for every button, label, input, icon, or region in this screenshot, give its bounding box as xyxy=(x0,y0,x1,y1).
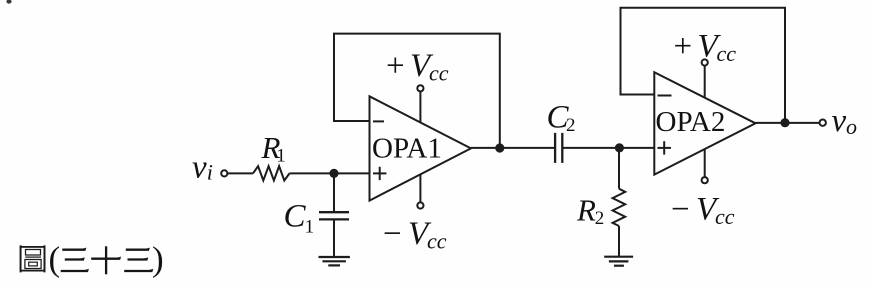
wire: OPA1 +Vcc stub xyxy=(419,92,421,123)
caption stroke serifs xyxy=(81,248,154,273)
op-amp U2 (OPA2) triangle xyxy=(654,72,755,174)
svg-text:+: + xyxy=(674,28,693,64)
ground (below R2) xyxy=(604,256,633,258)
node: vo output terminal xyxy=(820,120,826,126)
svg-text:v: v xyxy=(832,103,847,139)
svg-text:−: − xyxy=(383,216,402,252)
svg-text:OPA1: OPA1 xyxy=(372,132,442,164)
node: OPA2 -Vcc terminal xyxy=(702,177,708,183)
wire: node B down to R2 xyxy=(618,148,620,189)
wire: R2 to ground xyxy=(618,226,620,256)
resistor R1 xyxy=(253,166,290,180)
glyph 圖 inner top box xyxy=(26,250,41,256)
node A: junction of R1, C1, OPA1 + input xyxy=(330,170,337,177)
resistor R2 xyxy=(613,189,626,226)
op-amp U1 (OPA1) triangle xyxy=(370,96,471,200)
node: OPA1 -Vcc terminal xyxy=(417,202,423,208)
capacitor C1 xyxy=(319,211,349,213)
svg-text:cc: cc xyxy=(717,41,737,66)
wire: R1 to OPA1 plus input xyxy=(290,172,370,174)
wire: OPA2 output to vo terminal xyxy=(756,122,820,124)
svg-text:2: 2 xyxy=(566,115,576,136)
glyph 圖 outer box xyxy=(21,247,45,271)
wire: node A down to C1 xyxy=(333,173,335,211)
svg-text:(: ( xyxy=(49,240,61,279)
svg-text:): ) xyxy=(152,240,164,279)
glyph 三 (second) xyxy=(126,249,149,251)
svg-text:cc: cc xyxy=(429,61,449,86)
node B: junction of C2, R2, OPA2 + input xyxy=(616,144,623,151)
svg-text:−: − xyxy=(671,192,690,228)
wire: OPA2 -Vcc stub xyxy=(704,149,706,177)
svg-text:OPA2: OPA2 xyxy=(656,106,726,138)
scan speck top-left xyxy=(6,0,11,4)
svg-text:R: R xyxy=(576,192,596,227)
wire: OPA1 -Vcc stub xyxy=(419,174,421,202)
wire: C2 to OPA2 plus input xyxy=(562,147,654,149)
wire: C1 to ground xyxy=(333,221,335,257)
node: OPA2 +Vcc terminal xyxy=(702,59,708,65)
node: vi input terminal xyxy=(221,170,227,176)
svg-text:C: C xyxy=(284,199,307,235)
caption: figure number 圖(三十三) xyxy=(21,245,45,272)
wire: OPA2 +Vcc stub xyxy=(704,66,706,98)
wire: OPA1 output to C2 xyxy=(471,147,555,149)
pin label: OPA2 minus input xyxy=(658,95,672,97)
wire: vi terminal to R1 xyxy=(228,172,254,174)
node: OPA1 +Vcc terminal xyxy=(417,85,423,91)
glyph 圖 bottom box xyxy=(25,260,41,269)
svg-text:1: 1 xyxy=(305,217,315,238)
svg-text:i: i xyxy=(207,160,213,185)
wire: OPA1 feedback loop (output to minus input) xyxy=(334,34,500,148)
capacitor C2 xyxy=(554,133,556,163)
svg-text:+: + xyxy=(386,48,405,84)
svg-text:2: 2 xyxy=(595,208,605,229)
glyph 十 xyxy=(91,258,120,260)
pin label: OPA2 plus input xyxy=(658,147,672,149)
pin label: OPA1 plus input xyxy=(373,172,386,174)
glyph 圖 middle bar xyxy=(25,256,41,258)
svg-text:v: v xyxy=(192,150,207,186)
svg-text:1: 1 xyxy=(276,146,286,167)
svg-text:cc: cc xyxy=(715,204,735,229)
ground (below C1) xyxy=(319,256,350,258)
svg-text:o: o xyxy=(846,114,857,139)
svg-text:cc: cc xyxy=(427,228,447,253)
glyph 圖 bottom inner box xyxy=(29,262,38,266)
wire: OPA2 feedback loop (output to minus input) xyxy=(621,8,786,123)
node: OPA2 output junction xyxy=(781,119,788,126)
glyph 三 (first) xyxy=(62,249,85,251)
node: OPA1 output junction xyxy=(496,144,503,151)
pin label: OPA1 minus input xyxy=(373,120,384,122)
